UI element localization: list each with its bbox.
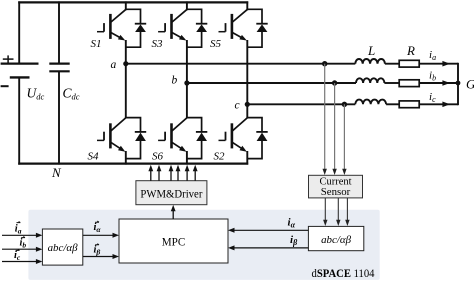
wire: capacitor top lead [58,1,60,63]
svg-text:abc/αβ: abc/αβ [48,242,79,254]
svg-text:dSPACE 1104: dSPACE 1104 [312,268,375,280]
wire: leg3 bottom stub [246,151,248,165]
inductor L phase b [356,78,384,83]
wire: leg2 bottom stub [186,151,188,165]
svg-text:Cdc: Cdc [63,86,80,102]
wire: leg1 node-a-to-lower [125,64,127,119]
wire: sensor output 2 to abc/ab block [337,198,339,223]
wire: battery negative lead [18,77,20,164]
left abc/alphabeta transform block [42,229,82,265]
phase b sense tap dot [332,80,337,85]
wire: phase a resistor-to-bus with current arrow ia [419,63,458,65]
battery Udc negative plate [10,76,30,78]
svg-text:S4: S4 [88,151,100,163]
svg-text:MPC: MPC [162,235,186,249]
wire: leg2 upper-to-node-b [186,40,188,83]
resistor R phase b [399,80,419,87]
battery Udc positive plate [1,62,39,64]
wire: leg1 upper-to-node-a [125,40,127,64]
diode antiparallel to S2 [247,118,267,159]
wire: reference input ia* [2,234,39,236]
right abc/alphabeta transform block [308,226,363,250]
wire: leg3 upper-to-node-c [246,40,248,104]
wire: phase b line [187,82,356,84]
svg-text:c: c [235,100,240,112]
wire: phase a coil-to-resistor [385,63,399,65]
battery minus sign [1,85,9,87]
wire: reference input ib* [2,248,39,250]
current sensor box [309,175,363,198]
resistor R phase a [399,60,419,67]
wire: top DC rail [18,1,248,3]
phase a sense tap dot [322,61,327,66]
wire: reference input ic* [2,261,39,263]
wire: leg1 top stub [125,1,127,10]
wire: leg2 node-b-to-lower [186,83,188,119]
svg-text:a: a [111,59,117,71]
svg-text:ia: ia [429,49,436,62]
wire: phase a line [126,63,355,65]
capacitor Cdc bottom plate [49,70,69,72]
svg-text:Current: Current [320,177,352,188]
diode antiparallel to S6 [187,118,207,159]
wire: sensor output 3 to abc/ab block [346,198,348,223]
capacitor Cdc top plate [49,62,69,64]
svg-text:S1: S1 [91,38,102,50]
svg-text:ia: ia [15,224,22,236]
wire: phase c resistor-to-bus with current arrow ic [419,103,458,105]
phase c sense tap dot [342,102,347,107]
battery plus sign [3,55,14,62]
transistor S1 (IGBT) [97,9,126,40]
svg-text:S2: S2 [214,151,226,163]
svg-text:b: b [172,75,178,87]
PWM&Driver box [136,181,207,205]
wire: phase b coil-to-resistor [384,82,399,84]
svg-text:abc/αβ: abc/αβ [321,234,352,246]
svg-text:G: G [466,76,474,91]
svg-text:S5: S5 [210,38,222,50]
svg-text:L: L [367,43,375,58]
diode antiparallel to S3 [187,9,207,47]
inductor L phase a [355,59,385,64]
svg-text:S3: S3 [152,38,164,50]
wire: sense line b to current sensor [334,83,336,172]
wire: ibeta* to MPC [83,256,115,258]
svg-text:R: R [406,43,415,58]
svg-text:ic: ic [429,91,436,104]
gate drive arrows from PWM&Driver to inverter [151,168,195,181]
resistor R phase c [399,101,419,108]
MPC block [119,219,228,263]
wire: sense line a to current sensor [324,64,326,172]
dSPACE 1104 shaded region [28,210,379,280]
wire: ialpha to MPC [232,229,308,231]
svg-text:S6: S6 [152,151,164,163]
wire: capacitor bottom lead [58,71,60,164]
diode antiparallel to S5 [247,9,267,47]
transistor S6 (IGBT) [158,118,187,152]
wire: ialpha* to MPC [83,234,115,236]
wire: leg1 bottom stub [125,151,127,165]
wire: bottom DC rail [18,163,248,165]
svg-text:ic: ic [14,250,21,262]
wire: sense line c to current sensor [343,104,345,171]
wire: ibeta to MPC [232,247,308,249]
wire: phase b resistor-to-bus with current arrow ib [419,82,458,84]
svg-text:ib: ib [429,70,436,83]
transistor S4 (IGBT) [97,118,126,152]
transistor S5 (IGBT) [219,9,248,40]
svg-text:Udc: Udc [27,86,45,102]
transistor S3 (IGBT) [158,9,187,40]
inductor L phase c [355,100,386,105]
diode antiparallel to S1 [126,9,146,47]
grid bus junction dot [456,81,461,86]
svg-text:N: N [51,165,62,180]
transistor S2 (IGBT) [219,118,248,152]
diode antiparallel to S4 [126,118,146,159]
wire: phase c line [247,103,355,105]
wire: leg3 node-c-to-lower [246,104,248,118]
node a junction dot [123,61,128,66]
wire: leg3 top stub [246,1,248,10]
wire: MPC to PWM&Driver arrow [172,208,174,220]
wire: grid bus vertical [457,63,459,105]
node c junction dot [245,102,250,107]
wire: battery positive lead [18,1,20,63]
wire: sensor output 1 to abc/ab block [324,198,326,223]
node b junction dot [184,80,189,85]
svg-text:Sensor: Sensor [321,187,351,198]
wire: leg2 top stub [186,1,188,10]
svg-text:PWM&Driver: PWM&Driver [140,186,202,200]
svg-text:ib: ib [20,238,27,250]
wire: phase c coil-to-resistor [386,103,399,105]
